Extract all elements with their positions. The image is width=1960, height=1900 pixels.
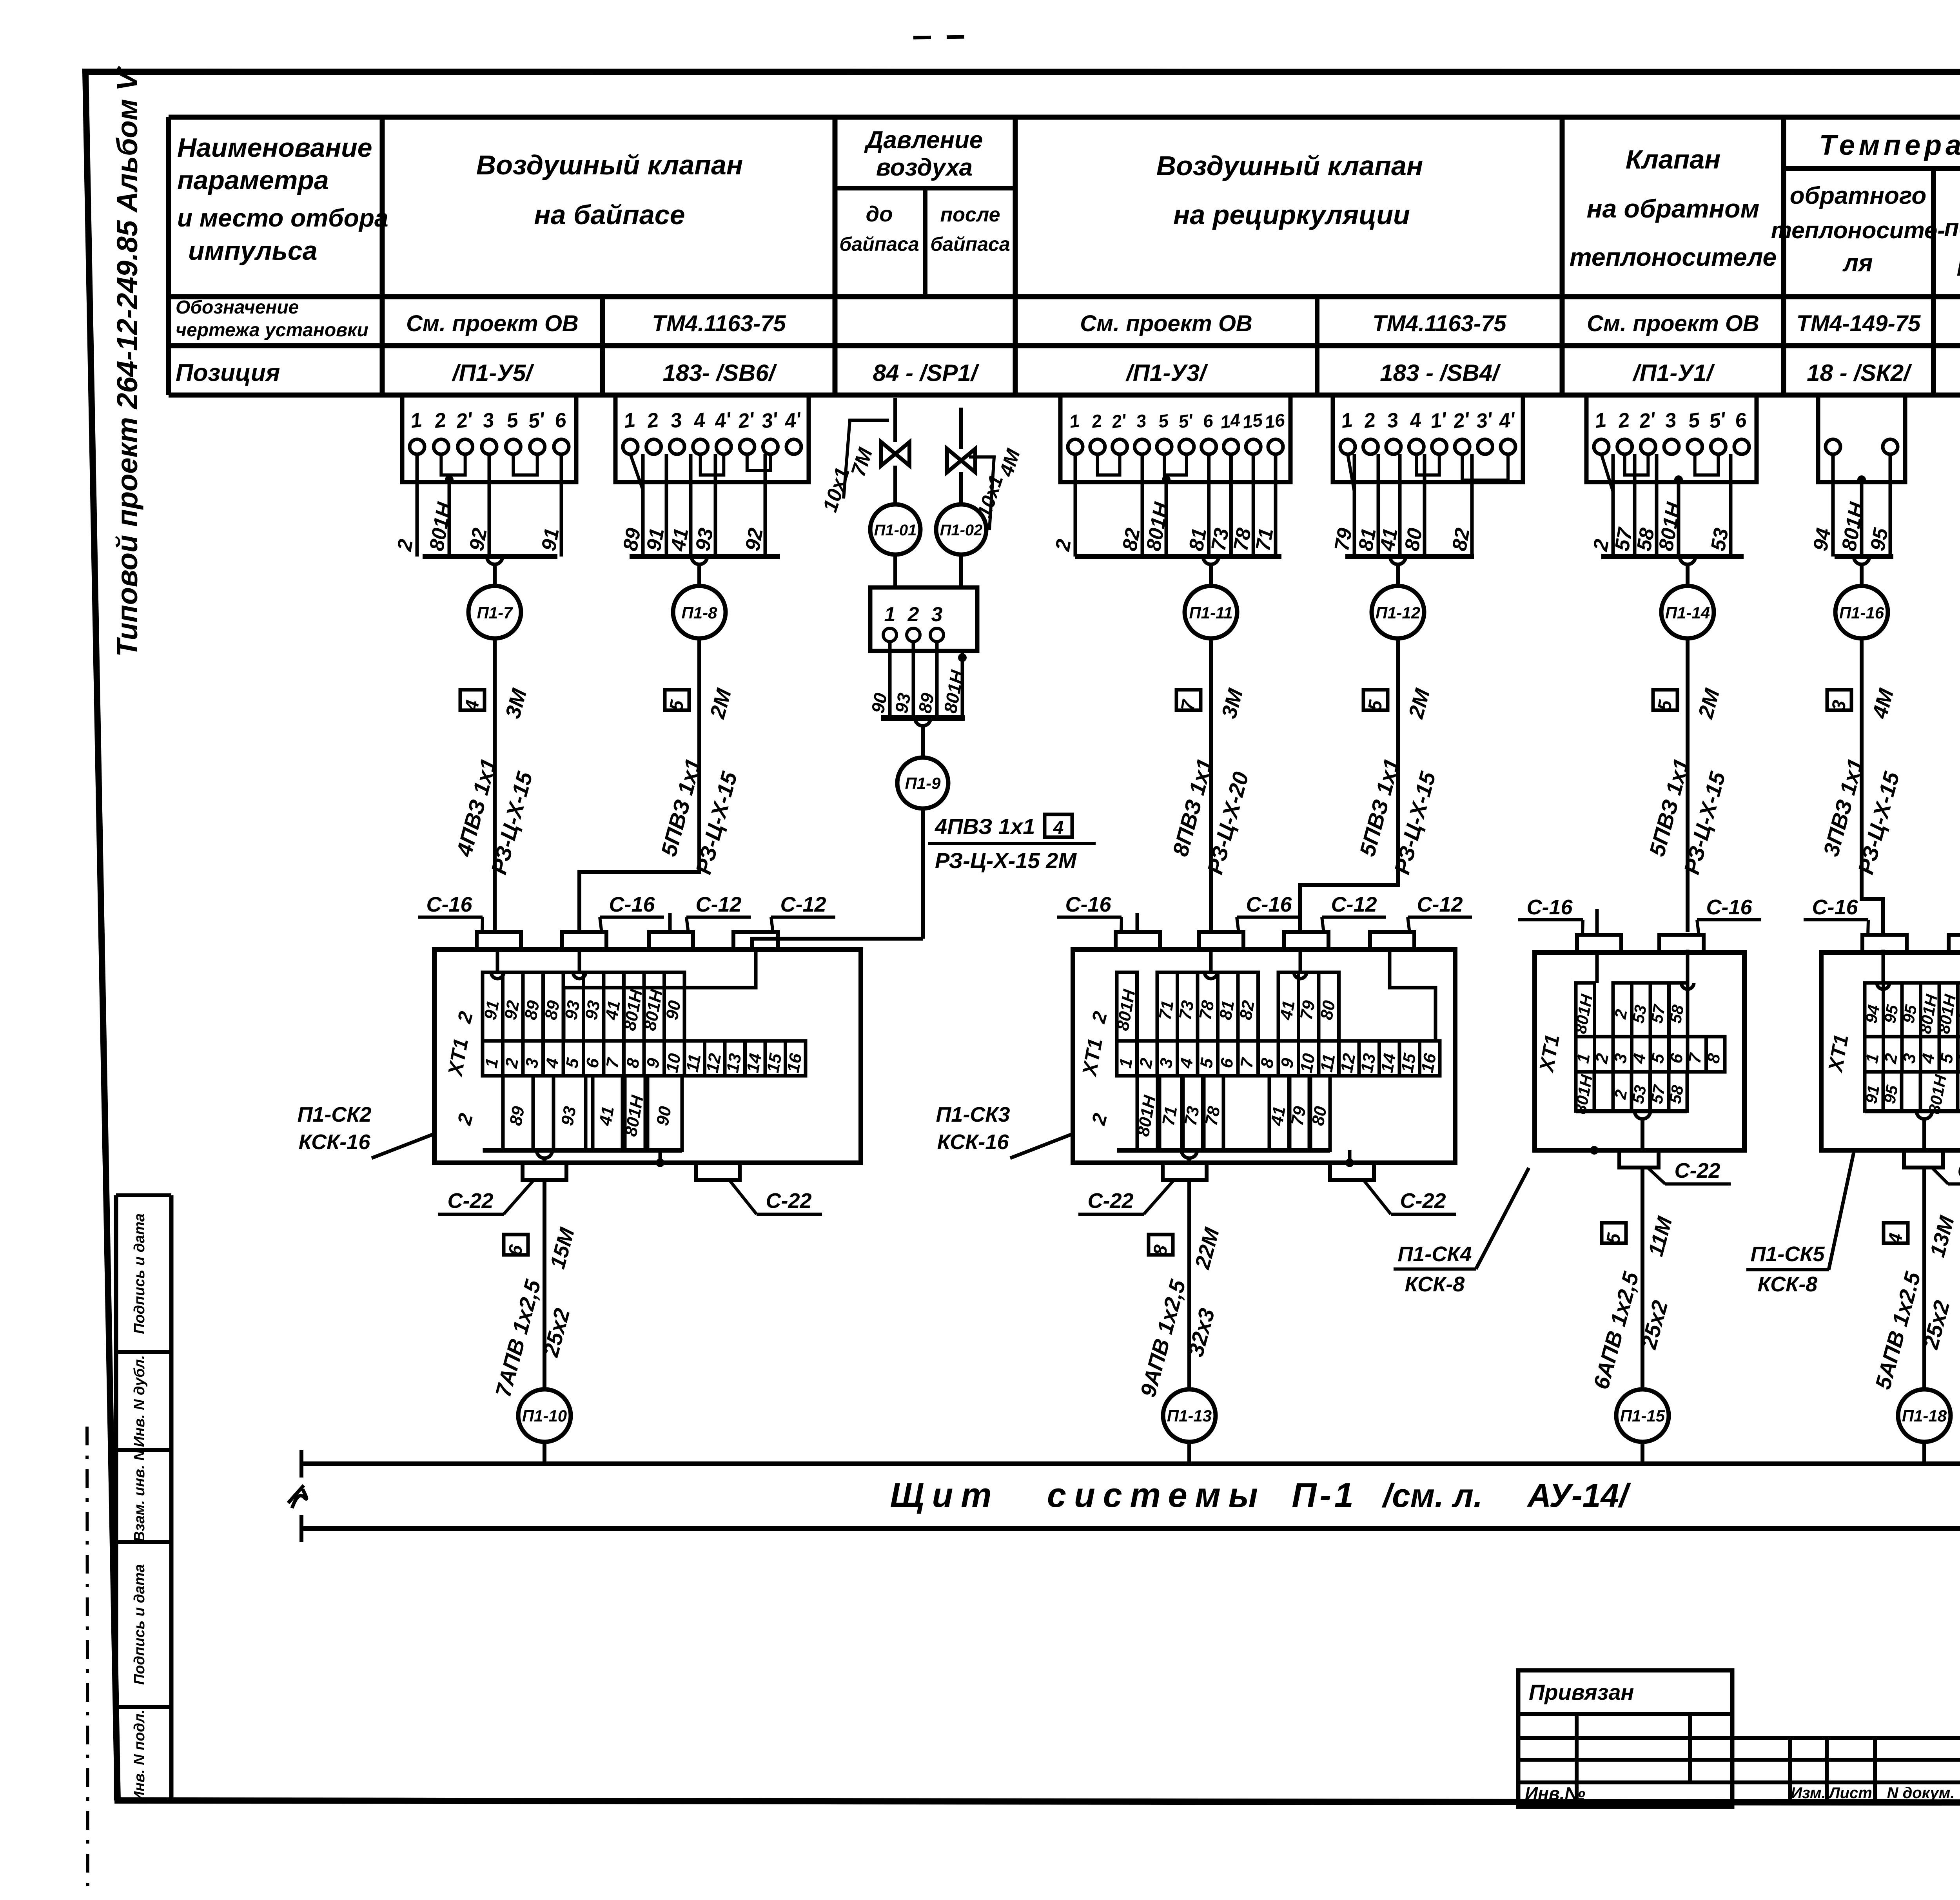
svg-text:П1-СК4: П1-СК4 [1397, 1242, 1472, 1266]
svg-text:94: 94 [1862, 1003, 1883, 1024]
svg-text:80: 80 [1317, 999, 1339, 1021]
svg-text:/П1-У1/: /П1-У1/ [1632, 360, 1715, 386]
svg-text:П1-7: П1-7 [477, 604, 514, 622]
svg-text:П1-13: П1-13 [1167, 1407, 1212, 1425]
svg-text:4ПВЗ 1х1: 4ПВЗ 1х1 [935, 814, 1035, 839]
svg-text:Обозначение: Обозначение [176, 297, 299, 318]
svg-text:ТМ4.1163-75: ТМ4.1163-75 [1372, 311, 1506, 336]
svg-text:Инв. N подл.: Инв. N подл. [131, 1710, 148, 1802]
svg-text:92: 92 [465, 526, 492, 553]
svg-text:3: 3 [931, 603, 943, 626]
svg-text:93: 93 [582, 999, 604, 1021]
svg-text:12: 12 [1337, 1052, 1359, 1074]
svg-text:С-12: С-12 [1417, 893, 1463, 916]
svg-text:П1-8: П1-8 [682, 604, 718, 622]
svg-text:П1-СК3: П1-СК3 [936, 1103, 1010, 1126]
svg-text:Давление: Давление [864, 127, 983, 154]
svg-text:байпаса: байпаса [930, 233, 1010, 255]
svg-text:79: 79 [1287, 1105, 1310, 1127]
svg-text:79: 79 [1297, 999, 1319, 1021]
svg-text:импульса: импульса [188, 236, 318, 266]
svg-text:95: 95 [1899, 1003, 1920, 1025]
svg-text:2: 2 [907, 603, 919, 626]
svg-text:53: 53 [1629, 1003, 1650, 1024]
svg-text:См. проект ОВ: См. проект ОВ [1080, 311, 1252, 336]
svg-text:11: 11 [1317, 1053, 1339, 1074]
svg-text:95: 95 [1880, 1084, 1902, 1105]
svg-text:С-16: С-16 [1706, 896, 1752, 919]
svg-text:Инв.№: Инв.№ [1525, 1783, 1585, 1804]
svg-text:С-22: С-22 [1957, 1159, 1960, 1182]
svg-text:С-22: С-22 [1400, 1189, 1446, 1213]
svg-text:15: 15 [1241, 410, 1264, 433]
svg-text:П1-16: П1-16 [1839, 604, 1884, 622]
svg-text:С-16: С-16 [1526, 896, 1573, 919]
svg-text:93: 93 [891, 691, 915, 715]
svg-text:71: 71 [1159, 1105, 1181, 1127]
svg-text:Подпись и дата: Подпись и дата [131, 1564, 148, 1685]
svg-text:78: 78 [1196, 999, 1218, 1021]
svg-text:системы: системы [1047, 1476, 1266, 1514]
svg-text:П1-14: П1-14 [1665, 604, 1710, 622]
svg-text:91: 91 [537, 526, 564, 553]
svg-text:П1-9: П1-9 [905, 774, 941, 792]
svg-text:91: 91 [481, 999, 503, 1021]
svg-text:71: 71 [1155, 999, 1178, 1021]
svg-text:С-12: С-12 [1331, 893, 1377, 916]
svg-text:80: 80 [1401, 526, 1427, 553]
svg-text:на байпасе: на байпасе [534, 199, 685, 230]
svg-text:53: 53 [1628, 1084, 1650, 1105]
svg-text:КСК-8: КСК-8 [1405, 1273, 1465, 1296]
svg-text:4: 4 [1053, 818, 1064, 838]
svg-text:41: 41 [595, 1105, 618, 1128]
svg-text:после: после [940, 203, 1000, 226]
svg-text:РЗ-Ц-Х-15 2М: РЗ-Ц-Х-15 2М [935, 848, 1077, 873]
svg-text:N докум.: N докум. [1887, 1784, 1955, 1802]
svg-text:/П1-У5/: /П1-У5/ [451, 360, 534, 386]
svg-text:89: 89 [506, 1105, 528, 1127]
svg-text:и место отбора: и место отбора [177, 204, 388, 232]
svg-text:1: 1 [884, 603, 896, 626]
svg-text:ля: ля [1842, 250, 1873, 277]
svg-text:С-16: С-16 [1246, 893, 1292, 916]
svg-text:П1-18: П1-18 [1902, 1407, 1947, 1425]
svg-text:53: 53 [1707, 526, 1733, 553]
svg-text:С-16: С-16 [609, 893, 655, 916]
svg-text:П1-СК2: П1-СК2 [297, 1103, 371, 1126]
svg-text:ТМ4.1163-75: ТМ4.1163-75 [652, 311, 786, 336]
svg-text:71: 71 [1252, 526, 1278, 553]
svg-text:90: 90 [867, 691, 891, 715]
svg-text:13: 13 [723, 1052, 745, 1074]
svg-text:обратного: обратного [1790, 182, 1926, 209]
svg-text:81: 81 [1216, 999, 1238, 1021]
svg-text:С-12: С-12 [780, 893, 826, 916]
svg-text:183- /SВ6/: 183- /SВ6/ [663, 360, 777, 386]
svg-text:14: 14 [743, 1052, 766, 1074]
svg-text:на обратном: на обратном [1587, 194, 1760, 223]
svg-text:параметра: параметра [177, 165, 329, 195]
svg-text:П1-10: П1-10 [522, 1407, 567, 1425]
svg-text:до: до [866, 201, 893, 226]
svg-text:41: 41 [667, 526, 693, 553]
svg-text:18 - /SК2/: 18 - /SК2/ [1807, 360, 1912, 386]
svg-text:С-16: С-16 [426, 893, 472, 916]
svg-text:Взам. инв. N: Взам. инв. N [131, 1449, 148, 1542]
svg-text:94: 94 [1809, 526, 1835, 553]
svg-text:теплоносите-: теплоносите- [1771, 217, 1945, 243]
svg-text:41: 41 [602, 999, 624, 1022]
svg-text:14: 14 [1219, 410, 1241, 433]
svg-text:90: 90 [662, 999, 685, 1021]
svg-text:теплоносителе: теплоносителе [1570, 243, 1777, 271]
svg-text:П1-01: П1-01 [874, 522, 917, 539]
svg-text:Щит: Щит [890, 1476, 999, 1514]
svg-text:14: 14 [1377, 1052, 1400, 1074]
svg-text:89: 89 [619, 526, 645, 553]
svg-text:Воздушный клапан: Воздушный клапан [476, 150, 743, 180]
svg-text:рифером: рифером [1957, 248, 1960, 276]
svg-text:Типовой проект 264-12-249.85: Типовой проект 264-12-249.85 Альбом Ѵ [111, 65, 143, 657]
svg-text:15: 15 [763, 1052, 786, 1074]
svg-text:79: 79 [1330, 526, 1357, 553]
svg-text:84 - /SР1/: 84 - /SР1/ [873, 360, 980, 386]
svg-text:С-16: С-16 [1065, 893, 1111, 916]
svg-text:С-22: С-22 [1087, 1189, 1133, 1213]
svg-text:80: 80 [1308, 1105, 1330, 1127]
svg-text:воздуха: воздуха [876, 154, 973, 181]
svg-text:Клапан: Клапан [1626, 145, 1720, 174]
svg-text:См. проект ОВ: См. проект ОВ [1587, 311, 1759, 336]
svg-text:С-22: С-22 [1674, 1159, 1720, 1182]
svg-text:С-22: С-22 [447, 1189, 493, 1213]
svg-text:ТМ4-149-75: ТМ4-149-75 [1797, 311, 1921, 336]
svg-text:11: 11 [682, 1053, 704, 1074]
svg-text:92: 92 [501, 999, 523, 1021]
svg-text:П1-12: П1-12 [1376, 604, 1420, 622]
svg-text:П-1: П-1 [1292, 1476, 1357, 1514]
svg-text:90: 90 [653, 1105, 675, 1127]
svg-text:12: 12 [703, 1052, 725, 1074]
svg-text:/см. л.: /см. л. [1381, 1477, 1483, 1514]
svg-text:Инв. N дубл.: Инв. N дубл. [131, 1355, 148, 1447]
svg-text:/П1-У3/: /П1-У3/ [1125, 360, 1208, 386]
svg-text:93: 93 [691, 526, 718, 553]
svg-text:П1-СК5: П1-СК5 [1750, 1242, 1825, 1266]
svg-text:73: 73 [1181, 1105, 1203, 1127]
svg-text:82: 82 [1236, 999, 1258, 1021]
svg-text:91: 91 [642, 526, 669, 553]
svg-text:82: 82 [1118, 526, 1145, 553]
svg-text:41: 41 [1267, 1105, 1289, 1128]
svg-text:41: 41 [1276, 999, 1299, 1022]
svg-text:Привязан: Привязан [1529, 1680, 1634, 1704]
svg-text:82: 82 [1448, 526, 1474, 553]
svg-text:93: 93 [557, 1105, 580, 1127]
svg-text:16: 16 [1418, 1052, 1440, 1074]
svg-text:95: 95 [1880, 1003, 1902, 1025]
svg-text:10: 10 [662, 1052, 685, 1074]
svg-text:Температура: Температура [1819, 130, 1960, 161]
svg-text:С-22: С-22 [766, 1189, 811, 1213]
svg-text:АУ-14/: АУ-14/ [1526, 1477, 1631, 1514]
svg-text:89: 89 [915, 691, 938, 715]
svg-text:С-16: С-16 [1812, 896, 1858, 919]
svg-text:чертежа установки: чертежа установки [176, 320, 368, 341]
svg-text:95: 95 [1866, 526, 1893, 553]
svg-text:на рециркуляции: на рециркуляции [1173, 199, 1410, 230]
svg-text:78: 78 [1201, 1105, 1224, 1127]
svg-text:См. проект ОВ: См. проект ОВ [406, 311, 579, 336]
svg-text:перед кало-: перед кало- [1944, 214, 1960, 241]
svg-text:16: 16 [784, 1052, 806, 1074]
svg-text:КСК-16: КСК-16 [299, 1130, 371, 1154]
svg-text:Лист: Лист [1828, 1784, 1872, 1802]
svg-text:183 - /SВ4/: 183 - /SВ4/ [1380, 360, 1501, 386]
svg-text:КСК-8: КСК-8 [1758, 1273, 1818, 1296]
svg-text:15: 15 [1397, 1052, 1420, 1074]
svg-text:Позиция: Позиция [176, 359, 280, 386]
svg-text:Подпись и дата: Подпись и дата [131, 1213, 148, 1334]
svg-text:89: 89 [521, 999, 543, 1021]
svg-text:58: 58 [1666, 1084, 1687, 1105]
svg-text:73: 73 [1176, 999, 1198, 1021]
svg-text:КСК-16: КСК-16 [937, 1130, 1009, 1154]
svg-text:16: 16 [1263, 410, 1286, 433]
svg-text:С-12: С-12 [695, 893, 741, 916]
svg-text:Воздушный клапан: Воздушный клапан [1156, 150, 1423, 181]
svg-text:Изм.: Изм. [1791, 1784, 1826, 1802]
svg-text:92: 92 [741, 526, 768, 553]
svg-text:П1-11: П1-11 [1189, 604, 1232, 622]
svg-text:89: 89 [541, 999, 564, 1021]
svg-text:41: 41 [1376, 526, 1402, 553]
svg-text:13: 13 [1357, 1052, 1379, 1074]
svg-text:10: 10 [1297, 1052, 1319, 1074]
svg-text:П1-15: П1-15 [1620, 1407, 1665, 1425]
svg-text:байпаса: байпаса [839, 233, 919, 255]
svg-text:58: 58 [1666, 1003, 1688, 1025]
svg-text:П1-02: П1-02 [940, 522, 983, 539]
svg-text:Наименование: Наименование [177, 133, 372, 163]
